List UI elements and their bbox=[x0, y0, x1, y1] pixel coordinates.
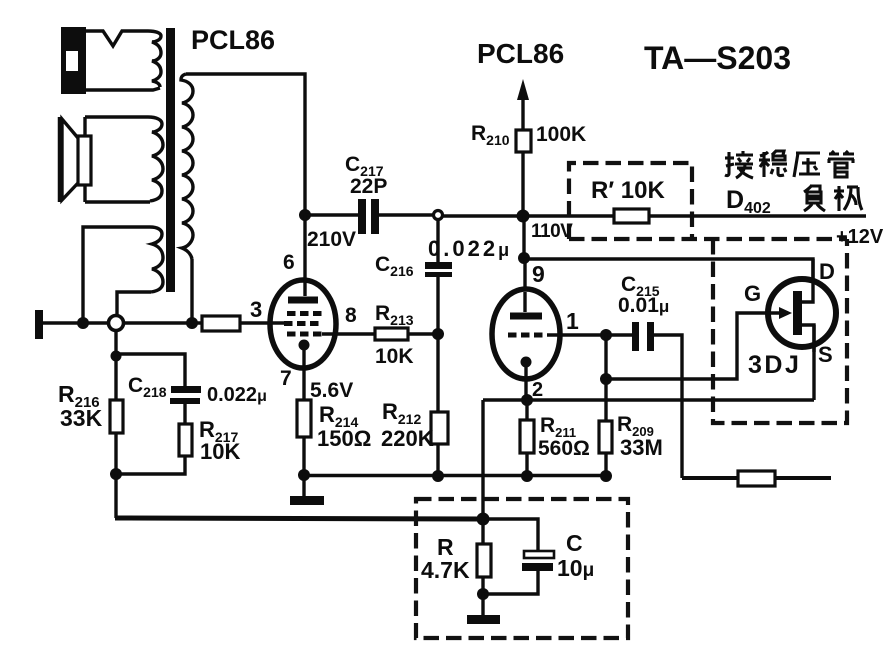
wire cathode feedback down bbox=[481, 400, 484, 519]
svg-text:0.01μ: 0.01μ bbox=[618, 294, 669, 317]
resistor R213 body bbox=[375, 328, 408, 340]
transistor Q1 drain step bbox=[798, 259, 813, 302]
node junction R211 bottom bbox=[521, 470, 533, 482]
wire cathode to FET source bbox=[483, 398, 814, 401]
resistor Rg (grid stopper) bbox=[202, 316, 240, 331]
capacitor C218 plates bbox=[171, 386, 201, 393]
svg-text:3DJ: 3DJ bbox=[748, 351, 801, 379]
wire C216 bottom to R213 node bbox=[436, 277, 439, 334]
wire winding1 top lead with V tap bbox=[86, 31, 148, 46]
wire winding2 bottom lead bbox=[85, 185, 150, 202]
wire branch to C218 bbox=[116, 354, 185, 387]
wire down to feedback bus bbox=[114, 474, 117, 518]
svg-text:1: 1 bbox=[566, 308, 579, 334]
svg-text:210V: 210V bbox=[307, 228, 356, 251]
svg-text:560Ω: 560Ω bbox=[538, 437, 590, 460]
wire drain line to FET bbox=[524, 259, 813, 302]
svg-text:6: 6 bbox=[283, 251, 295, 274]
wire grid pin1 lead bbox=[547, 333, 604, 336]
resistor R209 body bbox=[599, 421, 612, 453]
wire C217 to node bbox=[379, 213, 433, 216]
wire input line bbox=[43, 321, 108, 324]
svg-text:5.6V: 5.6V bbox=[310, 379, 353, 402]
transistor Q1 3DJ FET circle bbox=[768, 279, 836, 347]
node junction R213/R212 bbox=[432, 328, 444, 340]
wire down to R212 bbox=[436, 334, 439, 412]
wire R211 top lead bbox=[525, 400, 528, 420]
svg-text:D: D bbox=[819, 259, 835, 284]
dashed box R' bbox=[569, 163, 692, 239]
svg-text:33M: 33M bbox=[620, 435, 663, 460]
transformer primary winding W4 bbox=[181, 74, 193, 259]
capacitor C217 plates bbox=[358, 199, 366, 234]
gate arrowhead bbox=[779, 307, 792, 319]
svg-text:2: 2 bbox=[532, 379, 543, 401]
wire primary top to plate node bbox=[186, 74, 305, 213]
char 稳 bbox=[759, 151, 787, 177]
svg-text:TA—S203: TA—S203 bbox=[644, 40, 791, 76]
resistor R216 body bbox=[110, 400, 123, 433]
resistor Rout body bbox=[738, 471, 775, 486]
wire pin9 lead bbox=[523, 258, 526, 292]
wire grid node down bbox=[604, 335, 607, 379]
wire plate node to C217 bbox=[305, 213, 358, 216]
char 负 bbox=[804, 185, 825, 211]
resistor R211 body bbox=[520, 420, 534, 453]
wire ground bus y475 bbox=[304, 474, 608, 477]
resistor R214 body bbox=[297, 400, 311, 437]
wire R top lead bbox=[481, 519, 484, 544]
wire winding3 bottom lead bbox=[117, 292, 151, 315]
resistor R 4.7K body bbox=[477, 544, 491, 577]
tube V2 cathode dot bbox=[521, 357, 532, 368]
dashed box feedback R/C bbox=[416, 499, 628, 638]
svg-text:10K: 10K bbox=[375, 345, 414, 368]
wire R209 top lead bbox=[604, 379, 607, 421]
wire C216 top lead bbox=[436, 220, 439, 262]
wire R216 bottom bbox=[114, 433, 117, 474]
dashed box FET enclosure bbox=[713, 239, 847, 423]
svg-text:9: 9 bbox=[532, 261, 545, 287]
wire resistor out right bbox=[775, 476, 831, 480]
resistor R212 body bbox=[431, 412, 448, 444]
wire R214 bottom bbox=[302, 437, 305, 475]
wire node down bbox=[114, 331, 117, 356]
tube V1 plate lead pin6 bbox=[303, 215, 306, 296]
tube V1 grid rows bbox=[287, 311, 322, 316]
speaker LS bbox=[78, 136, 91, 185]
svg-text:R′ 10K: R′ 10K bbox=[591, 177, 665, 204]
node junction R bottom bbox=[477, 588, 489, 600]
svg-text:3: 3 bbox=[250, 297, 262, 322]
ground below R bbox=[481, 594, 484, 616]
node junction C218 branch bbox=[111, 351, 122, 362]
node open circle bbox=[109, 316, 124, 331]
wire arrow to R210 bbox=[521, 94, 524, 130]
wire R210 bottom to 110V node bbox=[521, 152, 524, 216]
svg-text:PCL86: PCL86 bbox=[477, 38, 564, 69]
resistor R210 body bbox=[516, 130, 531, 152]
svg-text:C: C bbox=[566, 530, 583, 556]
dashed line to regulator note bbox=[569, 237, 847, 241]
svg-text:22P: 22P bbox=[350, 175, 387, 198]
capacitor C216 plates bbox=[425, 262, 452, 269]
transformer T1 core bbox=[166, 28, 175, 292]
node junction R212 bottom bbox=[432, 470, 444, 482]
svg-text:10K: 10K bbox=[200, 439, 240, 464]
wire winding1 bottom lead bbox=[86, 88, 160, 90]
node junction B (primary bottom) bbox=[186, 317, 198, 329]
svg-text:G: G bbox=[744, 281, 761, 306]
wire pin3 grid lead inside bbox=[268, 321, 287, 324]
node open circle junction C216 bbox=[434, 211, 443, 220]
label Chinese note: 接稳压管 D402 负极 (hand-drawn strokes) bbox=[725, 151, 862, 211]
tube V2 plate bar bbox=[510, 313, 542, 320]
node junction bottom-left bbox=[110, 468, 122, 480]
svg-text:0.022μ: 0.022μ bbox=[207, 384, 267, 406]
capacitor C215 plates bbox=[632, 322, 639, 351]
wire C bottom lead bbox=[483, 571, 538, 594]
connector block (winding 1 termination) bbox=[61, 27, 86, 94]
svg-text:110V: 110V bbox=[531, 221, 573, 242]
wire gate line bbox=[606, 313, 788, 379]
char 管 bbox=[828, 151, 854, 177]
wire source lead down bbox=[812, 325, 815, 400]
wire R213 to node bbox=[408, 332, 434, 335]
node junction 110V bbox=[517, 210, 530, 223]
node junction pin9/drain bbox=[518, 252, 530, 264]
wire R217 bottom bbox=[117, 456, 185, 474]
svg-text:0.022μ: 0.022μ bbox=[428, 236, 512, 261]
node junction feedback bus / R top bbox=[477, 513, 490, 526]
wire cathode pin7 lead bbox=[302, 350, 305, 400]
svg-text:8: 8 bbox=[345, 304, 357, 327]
wire to C215 bbox=[606, 333, 633, 336]
wire node to 110V junction bbox=[443, 214, 614, 217]
input terminal J bbox=[35, 310, 43, 339]
capacitor C 10u bottom plate bbox=[522, 563, 553, 571]
node junction grid/C215 bbox=[600, 329, 612, 341]
wire R' line to +12V end bbox=[649, 214, 866, 217]
wire node to grid resistor bbox=[124, 321, 202, 324]
ground bar below R214 bbox=[302, 475, 305, 497]
wire to tube1 grid pin3 bbox=[240, 321, 287, 324]
svg-text:PCL86: PCL86 bbox=[191, 25, 275, 55]
char 极 bbox=[834, 186, 862, 211]
capacitor C 10u top plate (hollow) bbox=[524, 551, 554, 558]
tube V1 PCL86 pentode envelope bbox=[270, 280, 336, 368]
tube V2 grid row bbox=[508, 333, 547, 338]
wire R211 bottom bbox=[525, 453, 528, 476]
node junction plate tube1 (210V) bbox=[299, 209, 311, 221]
svg-text:150Ω: 150Ω bbox=[317, 426, 371, 451]
resistor R217 body bbox=[179, 424, 192, 456]
svg-text:4.7K: 4.7K bbox=[421, 557, 470, 583]
wire R216 top lead bbox=[114, 356, 117, 400]
wire pin8 lead to R213 bbox=[322, 332, 375, 335]
node junction R209 bottom bbox=[600, 470, 612, 482]
svg-text:+12V: +12V bbox=[836, 226, 884, 248]
wire cathode pin2 lead bbox=[524, 367, 527, 400]
wire C215 right going down bbox=[654, 335, 682, 478]
svg-text:7: 7 bbox=[280, 367, 292, 390]
node junction R214 bottom bbox=[298, 469, 310, 481]
tube V1 cathode dot bbox=[299, 340, 310, 351]
node junction gate branch bbox=[600, 373, 612, 385]
svg-text:100K: 100K bbox=[536, 123, 586, 146]
node junction A bbox=[77, 317, 89, 329]
char 压 bbox=[794, 153, 820, 177]
tube V2 plate lead bbox=[523, 292, 526, 312]
B+ arrow bbox=[517, 79, 529, 100]
tube V1 plate bar bbox=[288, 297, 318, 304]
wire long feedback bus bbox=[115, 518, 484, 519]
svg-text:S: S bbox=[818, 342, 833, 367]
wire winding3 top lead to node bbox=[83, 227, 150, 320]
wire primary bottom lead down bbox=[190, 259, 193, 321]
svg-text:33K: 33K bbox=[60, 405, 103, 431]
winding W1 bbox=[148, 31, 161, 87]
wire 110V node down to pin9 node bbox=[522, 216, 525, 258]
winding W2 (speaker winding) bbox=[148, 117, 163, 201]
wire node to C top bbox=[483, 519, 538, 551]
wire R209 bottom bbox=[604, 453, 607, 476]
wire winding2 top lead bbox=[85, 117, 148, 136]
resistor R' body bbox=[614, 209, 649, 223]
transistor Q1 source step bbox=[798, 325, 814, 352]
node junction pin2 bbox=[521, 394, 533, 406]
winding W3 bbox=[150, 227, 163, 292]
wire output tap down right bbox=[682, 476, 738, 480]
tube V2 PCL86 triode envelope bbox=[492, 289, 560, 379]
svg-text:220K: 220K bbox=[381, 426, 434, 451]
wire C218 to R217 bbox=[183, 404, 186, 424]
wire R212 bottom bbox=[436, 444, 439, 476]
transistor Q1 channel bar bbox=[793, 291, 802, 335]
char 接 bbox=[725, 151, 753, 178]
wire R bottom bbox=[481, 577, 484, 594]
